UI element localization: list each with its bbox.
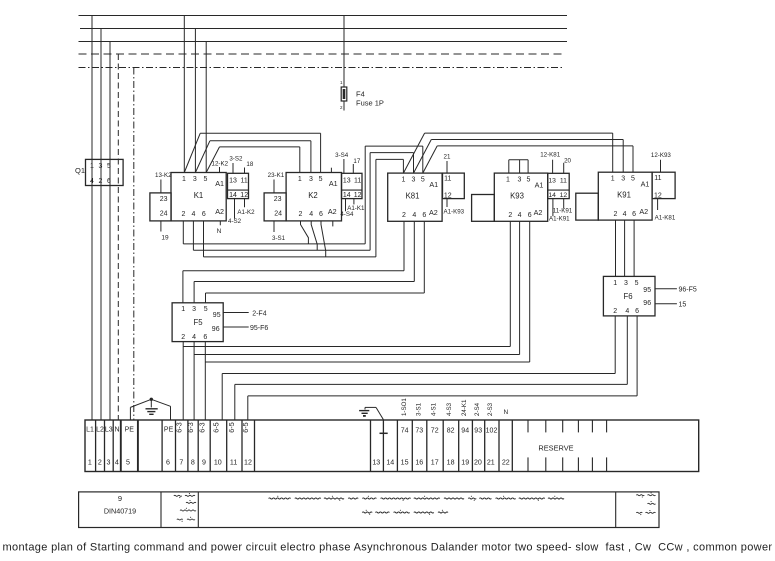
svg-text:4-S3: 4-S3 (446, 402, 453, 416)
svg-text:12: 12 (244, 459, 252, 467)
svg-text:3: 3 (98, 163, 102, 170)
svg-text:A2: A2 (639, 207, 648, 216)
svg-text:1: 1 (506, 176, 510, 183)
svg-text:12-K2: 12-K2 (212, 160, 229, 167)
svg-text:15: 15 (401, 459, 409, 467)
svg-text:6-3: 6-3 (197, 422, 206, 432)
svg-text:PE: PE (125, 427, 135, 434)
svg-text:8: 8 (191, 459, 195, 467)
svg-text:93: 93 (474, 428, 482, 435)
svg-text:73: 73 (415, 428, 423, 435)
svg-text:12-K81: 12-K81 (540, 151, 561, 158)
svg-text:1: 1 (613, 280, 617, 287)
svg-text:5: 5 (635, 280, 639, 287)
svg-text:Q1: Q1 (75, 166, 85, 175)
svg-text:74: 74 (401, 428, 409, 435)
svg-text:102: 102 (486, 428, 498, 435)
svg-text:2: 2 (182, 211, 186, 218)
svg-text:6: 6 (319, 211, 323, 218)
svg-text:6: 6 (635, 308, 639, 315)
svg-text:4: 4 (309, 211, 313, 218)
svg-text:11: 11 (230, 459, 237, 467)
svg-text:16: 16 (415, 459, 423, 467)
svg-text:3-S1: 3-S1 (272, 235, 286, 242)
svg-text:4: 4 (115, 459, 119, 467)
svg-text:6: 6 (202, 211, 206, 218)
svg-text:N: N (114, 427, 119, 434)
svg-text:K91: K91 (617, 191, 631, 200)
svg-text:A1: A1 (329, 179, 338, 188)
svg-text:A1-K93: A1-K93 (443, 208, 464, 215)
svg-text:21: 21 (487, 459, 495, 467)
svg-text:12: 12 (654, 192, 662, 199)
svg-text:DIN40719: DIN40719 (104, 507, 136, 516)
svg-text:3: 3 (517, 176, 521, 183)
svg-text:2: 2 (508, 212, 512, 219)
svg-text:3-S4: 3-S4 (335, 152, 349, 159)
svg-text:21: 21 (444, 154, 451, 161)
svg-text:72: 72 (431, 428, 439, 435)
svg-text:13: 13 (372, 459, 380, 467)
svg-text:96: 96 (643, 300, 651, 307)
svg-text:95: 95 (643, 287, 651, 294)
svg-text:11: 11 (444, 176, 451, 183)
svg-text:3: 3 (309, 176, 313, 183)
svg-text:Fuse 1P: Fuse 1P (356, 99, 384, 108)
svg-text:K1: K1 (194, 191, 204, 200)
svg-text:13-K2: 13-K2 (155, 172, 172, 179)
svg-text:1: 1 (90, 163, 94, 170)
svg-text:6: 6 (422, 212, 426, 219)
svg-text:4: 4 (90, 178, 94, 185)
svg-text:13: 13 (343, 177, 351, 184)
svg-text:95-F6: 95-F6 (250, 325, 268, 332)
svg-text:11: 11 (654, 175, 661, 182)
svg-text:3: 3 (107, 459, 111, 467)
svg-text:3: 3 (624, 280, 628, 287)
svg-text:A1-K91: A1-K91 (549, 215, 570, 222)
svg-text:4-S4: 4-S4 (340, 211, 354, 218)
svg-text:5: 5 (204, 306, 208, 313)
svg-text:1: 1 (181, 306, 185, 313)
svg-text:14: 14 (229, 192, 237, 199)
svg-text:2: 2 (299, 211, 303, 218)
svg-text:6: 6 (203, 334, 207, 341)
svg-text:5: 5 (421, 176, 425, 183)
svg-text:14: 14 (386, 459, 394, 467)
svg-text:6: 6 (632, 211, 636, 218)
svg-text:4: 4 (623, 211, 627, 218)
svg-text:3: 3 (192, 306, 196, 313)
svg-text:F6: F6 (623, 292, 632, 301)
svg-text:7: 7 (179, 459, 183, 467)
svg-text:19: 19 (161, 235, 169, 242)
svg-text:2: 2 (402, 212, 406, 219)
svg-text:6-5: 6-5 (241, 422, 250, 432)
svg-text:2-S3: 2-S3 (487, 402, 494, 416)
svg-text:20: 20 (564, 158, 571, 165)
svg-text:23: 23 (274, 196, 282, 203)
svg-text:F4: F4 (356, 90, 365, 99)
svg-text:3-S1: 3-S1 (416, 402, 423, 416)
svg-text:1: 1 (182, 176, 186, 183)
svg-text:4-S1: 4-S1 (431, 402, 438, 416)
svg-text:11: 11 (241, 177, 248, 184)
svg-text:18: 18 (246, 161, 253, 168)
svg-text:5: 5 (319, 176, 323, 183)
svg-text:RESERVE: RESERVE (538, 444, 573, 453)
svg-text:3-S2: 3-S2 (229, 156, 243, 163)
svg-text:3: 3 (412, 176, 416, 183)
svg-text:N: N (217, 228, 222, 235)
svg-text:A2: A2 (328, 207, 337, 216)
svg-text:6-5: 6-5 (211, 422, 220, 432)
svg-text:19: 19 (461, 459, 469, 467)
svg-text:11-K91: 11-K91 (553, 208, 573, 215)
svg-text:montage plan of Starting comma: montage plan of Starting command and pow… (3, 541, 773, 553)
svg-text:23-K1: 23-K1 (268, 172, 285, 179)
svg-text:2: 2 (613, 308, 617, 315)
svg-text:4: 4 (192, 211, 196, 218)
svg-text:2-S4: 2-S4 (474, 402, 481, 416)
svg-text:PE: PE (164, 427, 174, 434)
svg-text:5: 5 (107, 163, 111, 170)
svg-text:24: 24 (160, 211, 168, 218)
svg-text:K2: K2 (308, 191, 318, 200)
svg-text:4: 4 (412, 212, 416, 219)
svg-text:15: 15 (679, 302, 687, 309)
svg-text:5: 5 (631, 176, 635, 183)
svg-text:95: 95 (213, 312, 221, 319)
svg-text:12-K93: 12-K93 (651, 152, 672, 159)
svg-text:14: 14 (548, 192, 556, 199)
svg-text:4: 4 (625, 308, 629, 315)
svg-text:1-SO1: 1-SO1 (401, 398, 408, 416)
svg-text:94: 94 (461, 428, 469, 435)
svg-text:22: 22 (502, 459, 510, 467)
svg-text:18: 18 (447, 459, 455, 467)
svg-text:11: 11 (560, 177, 567, 184)
svg-text:11: 11 (354, 177, 361, 184)
svg-text:6: 6 (528, 212, 532, 219)
svg-text:A1-K81: A1-K81 (655, 214, 676, 221)
svg-text:A2: A2 (215, 207, 224, 216)
svg-text:A2: A2 (534, 208, 543, 217)
svg-text:1: 1 (401, 176, 405, 183)
svg-text:5: 5 (126, 459, 130, 467)
svg-text:A1-K2: A1-K2 (237, 209, 255, 216)
svg-text:1: 1 (88, 459, 92, 467)
svg-text:6-5: 6-5 (227, 422, 236, 432)
svg-text:82: 82 (447, 428, 455, 435)
svg-text:A1-K1: A1-K1 (347, 205, 365, 212)
svg-text:6: 6 (166, 459, 170, 467)
svg-text:3: 3 (193, 176, 197, 183)
svg-text:14: 14 (343, 192, 351, 199)
svg-text:L1: L1 (86, 427, 94, 434)
svg-text:1: 1 (298, 176, 302, 183)
svg-text:9: 9 (118, 494, 122, 503)
svg-text:2: 2 (98, 459, 102, 467)
svg-text:12: 12 (560, 192, 568, 199)
svg-text:12: 12 (354, 192, 362, 199)
svg-text:13: 13 (229, 177, 237, 184)
svg-text:2: 2 (98, 178, 102, 185)
svg-text:3: 3 (621, 176, 625, 183)
svg-text:2-F4: 2-F4 (252, 310, 267, 317)
svg-text:A1: A1 (535, 180, 544, 189)
svg-text:13: 13 (548, 177, 556, 184)
svg-text:24: 24 (274, 211, 282, 218)
svg-text:K81: K81 (406, 191, 420, 200)
svg-text:A2: A2 (429, 208, 438, 217)
svg-text:6-3: 6-3 (186, 422, 195, 432)
svg-text:17: 17 (431, 459, 439, 467)
svg-text:A1: A1 (641, 179, 650, 188)
svg-text:6-3: 6-3 (175, 422, 184, 432)
svg-text:10: 10 (214, 459, 222, 467)
svg-text:F5: F5 (193, 318, 203, 327)
svg-text:A1: A1 (215, 179, 224, 188)
svg-text:K93: K93 (510, 191, 524, 200)
svg-text:12: 12 (240, 192, 248, 199)
svg-text:5: 5 (204, 176, 208, 183)
svg-text:A1: A1 (429, 180, 438, 189)
svg-text:L3: L3 (105, 427, 113, 434)
svg-text:2: 2 (614, 211, 618, 218)
svg-text:1: 1 (611, 176, 615, 183)
svg-text:20: 20 (474, 459, 482, 467)
svg-text:4: 4 (518, 212, 522, 219)
svg-text:N: N (503, 409, 508, 416)
svg-text:96-F5: 96-F5 (679, 287, 697, 294)
svg-text:24-K1: 24-K1 (461, 399, 468, 416)
svg-text:4: 4 (192, 334, 196, 341)
svg-text:12: 12 (444, 192, 452, 199)
svg-text:2: 2 (181, 334, 185, 341)
svg-text:17: 17 (353, 158, 360, 165)
svg-text:9: 9 (202, 459, 206, 467)
svg-text:4-S2: 4-S2 (228, 218, 242, 225)
svg-text:L2: L2 (96, 427, 104, 434)
svg-text:6: 6 (107, 178, 111, 185)
svg-text:96: 96 (212, 326, 220, 333)
svg-text:5: 5 (526, 176, 530, 183)
svg-text:23: 23 (160, 196, 168, 203)
